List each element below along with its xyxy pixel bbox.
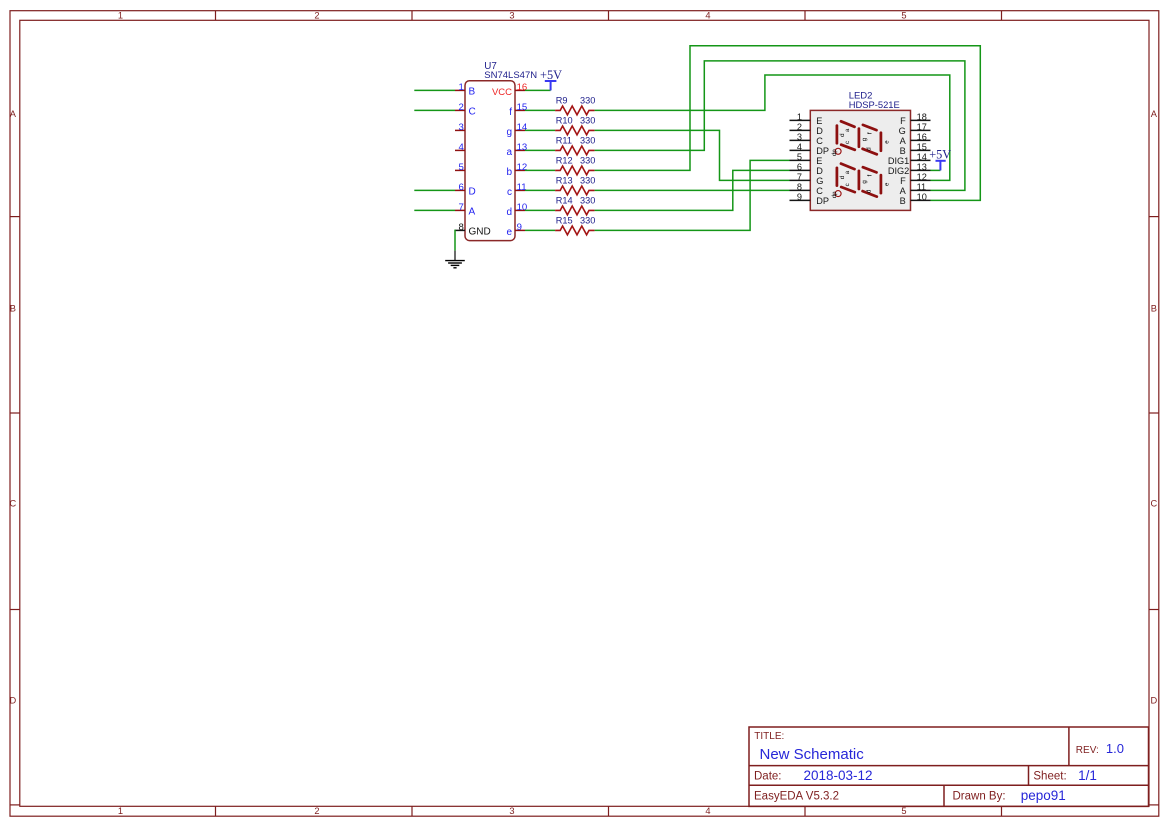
svg-text:dp: dp — [831, 149, 838, 156]
svg-text:R15: R15 — [556, 216, 573, 226]
svg-text:6: 6 — [458, 182, 463, 193]
svg-text:16: 16 — [917, 132, 927, 142]
U7 pin 10 stub — [515, 209, 525, 211]
U7 pin 5 stub — [455, 169, 465, 171]
svg-text:2018-03-12: 2018-03-12 — [804, 768, 873, 783]
U7 pin 14 stub — [515, 129, 525, 131]
wire R10 g to LED pin7 G — [595, 130, 790, 180]
frame tick left — [10, 216, 20, 218]
svg-text:10: 10 — [517, 202, 528, 213]
title block Sheet divider — [1028, 766, 1030, 786]
svg-text:GND: GND — [469, 227, 491, 238]
svg-text:DP: DP — [816, 196, 829, 206]
svg-text:R10: R10 — [556, 116, 573, 126]
frame tick top — [804, 11, 806, 21]
svg-text:D: D — [816, 166, 823, 176]
svg-text:F: F — [900, 116, 906, 126]
LED pin 11 stub — [911, 189, 931, 191]
svg-text:g: g — [861, 180, 868, 183]
svg-text:+5V: +5V — [540, 68, 562, 82]
LED pin 7 stub — [790, 179, 811, 181]
svg-text:c: c — [507, 187, 512, 198]
svg-text:R13: R13 — [556, 176, 573, 186]
svg-text:New Schematic: New Schematic — [760, 746, 865, 763]
svg-text:+5V: +5V — [929, 147, 951, 161]
svg-text:E: E — [816, 156, 822, 166]
svg-text:C: C — [9, 499, 16, 509]
svg-text:F: F — [900, 176, 906, 186]
svg-text:B: B — [469, 87, 476, 98]
svg-text:D: D — [1150, 696, 1157, 706]
svg-text:6: 6 — [797, 162, 802, 172]
svg-text:a: a — [506, 147, 512, 158]
U7 pin 11 stub — [515, 189, 525, 191]
svg-text:17: 17 — [917, 122, 927, 132]
frame tick bottom — [804, 806, 806, 816]
power symbol +5V (LED) — [939, 161, 941, 171]
svg-text:pepo91: pepo91 — [1021, 788, 1066, 803]
svg-text:A: A — [900, 136, 907, 146]
frame tick bottom — [1001, 806, 1003, 816]
svg-text:A: A — [900, 186, 907, 196]
svg-text:3: 3 — [509, 11, 514, 21]
frame tick right bottom — [1149, 804, 1159, 806]
svg-text:5: 5 — [458, 162, 463, 173]
svg-text:15: 15 — [917, 142, 927, 152]
resistor R9 330 — [525, 109, 555, 111]
U7 pin 12 stub — [515, 169, 525, 171]
wire R15 e to LED pin5 E — [595, 160, 790, 230]
U7 pin 8 stub — [455, 229, 465, 231]
U7 pin 2 stub — [455, 109, 465, 111]
frame tick bottom — [411, 806, 413, 816]
svg-text:330: 330 — [580, 216, 595, 226]
LED pin 4 stub — [790, 149, 811, 151]
svg-text:R12: R12 — [556, 156, 573, 166]
LED pin 12 stub — [911, 179, 931, 181]
title block row divider 1 — [749, 765, 1149, 767]
LED pin 1 stub — [790, 119, 811, 121]
svg-text:C: C — [1150, 499, 1157, 509]
wire to U7 pin 7 — [414, 209, 455, 211]
svg-text:9: 9 — [797, 192, 802, 202]
svg-text:d: d — [865, 190, 872, 193]
svg-text:B: B — [900, 196, 906, 206]
svg-text:D: D — [816, 126, 823, 136]
svg-text:330: 330 — [580, 156, 595, 166]
svg-text:12: 12 — [517, 162, 528, 173]
svg-text:5: 5 — [901, 11, 906, 21]
wire U7 pin16 to +5V — [525, 89, 551, 91]
svg-text:1: 1 — [797, 112, 802, 122]
svg-text:G: G — [816, 176, 823, 186]
frame tick top — [411, 11, 413, 21]
svg-text:7: 7 — [797, 172, 802, 182]
svg-text:c: c — [844, 183, 851, 186]
svg-text:Date:: Date: — [754, 771, 782, 783]
U7 pin 3 stub — [455, 129, 465, 131]
U7 pin 9 stub — [515, 229, 525, 231]
resistor R11 330 — [525, 149, 555, 151]
svg-text:VCC: VCC — [492, 87, 512, 98]
LED pin 5 stub — [790, 159, 811, 161]
svg-text:d: d — [839, 176, 846, 179]
svg-text:10: 10 — [917, 192, 927, 202]
svg-text:B: B — [900, 146, 906, 156]
svg-text:E: E — [816, 116, 822, 126]
svg-text:R11: R11 — [556, 136, 572, 146]
svg-text:D: D — [469, 187, 476, 198]
svg-text:16: 16 — [517, 82, 528, 93]
svg-text:dp: dp — [831, 191, 838, 198]
svg-text:f: f — [866, 132, 873, 134]
svg-text:4: 4 — [705, 806, 710, 816]
frame tick right — [1149, 412, 1159, 414]
svg-text:14: 14 — [917, 152, 927, 162]
title block DrawnBy divider — [943, 785, 945, 806]
svg-text:18: 18 — [917, 112, 927, 122]
wire R14 d to LED pin6 D — [595, 170, 790, 210]
svg-text:2: 2 — [458, 102, 463, 113]
svg-text:g: g — [506, 127, 512, 138]
frame tick top — [1001, 11, 1003, 21]
svg-text:7: 7 — [458, 202, 463, 213]
power symbol +5V (U7) — [550, 81, 552, 90]
wire to U7 pin 6 — [414, 189, 455, 191]
LED2 HDSP-521E body — [810, 110, 910, 210]
wire LED pin13 to +5V — [931, 169, 941, 171]
svg-text:DP: DP — [816, 146, 829, 156]
wire R12 b to LED pin10 B — [595, 46, 981, 201]
U7 pin 1 stub — [455, 89, 465, 91]
svg-text:330: 330 — [580, 136, 595, 146]
svg-text:G: G — [899, 126, 906, 136]
svg-text:C: C — [816, 186, 823, 196]
svg-text:d: d — [865, 147, 872, 150]
resistor R13 330 — [525, 189, 555, 191]
svg-text:TITLE:: TITLE: — [754, 731, 784, 742]
svg-text:EasyEDA V5.3.2: EasyEDA V5.3.2 — [754, 791, 839, 803]
LED pin 9 stub — [790, 199, 811, 201]
op-amp/IC U7 SN74LS47N body — [465, 81, 515, 241]
LED pin 6 stub — [790, 169, 811, 171]
LED pin 14 stub — [911, 159, 931, 161]
svg-text:330: 330 — [580, 116, 595, 126]
7-segment digit DIG1 — [831, 121, 891, 156]
wire to U7 pin 1 — [414, 89, 455, 91]
resistor R10 330 — [525, 129, 555, 131]
svg-text:f: f — [509, 107, 512, 118]
svg-text:A: A — [10, 109, 17, 119]
U7 pin 15 stub — [515, 109, 525, 111]
LED pin 16 stub — [911, 139, 931, 141]
svg-text:B: B — [1151, 304, 1157, 314]
svg-text:15: 15 — [517, 102, 528, 113]
svg-text:d: d — [506, 207, 512, 218]
svg-text:4: 4 — [797, 142, 802, 152]
LED pin 2 stub — [790, 129, 811, 131]
title block outline — [749, 727, 1149, 806]
svg-text:e: e — [506, 227, 512, 238]
svg-text:2: 2 — [314, 806, 319, 816]
svg-text:b: b — [506, 167, 512, 178]
frame tick left — [10, 609, 20, 611]
LED pin 13 stub — [911, 169, 931, 171]
svg-text:R14: R14 — [556, 196, 573, 206]
U7 pin 16 stub — [515, 89, 525, 91]
frame tick bottom — [608, 806, 610, 816]
svg-text:8: 8 — [797, 182, 802, 192]
svg-text:13: 13 — [517, 142, 528, 153]
U7 pin 13 stub — [515, 149, 525, 151]
svg-text:D: D — [9, 696, 16, 706]
U7 pin 6 stub — [455, 189, 465, 191]
svg-text:4: 4 — [458, 142, 464, 153]
wire R9 f to LED pin12 F — [595, 75, 950, 180]
svg-text:2: 2 — [797, 122, 802, 132]
resistor R15 330 — [525, 229, 555, 231]
svg-text:12: 12 — [917, 172, 927, 182]
svg-text:11: 11 — [517, 182, 527, 193]
svg-text:R9: R9 — [556, 96, 568, 106]
title block row divider 2 — [749, 784, 1149, 786]
wire U7 pin8 to ground — [454, 230, 456, 251]
svg-text:Sheet:: Sheet: — [1033, 771, 1066, 783]
U7 pin 7 stub — [455, 209, 465, 211]
svg-text:A: A — [1151, 109, 1158, 119]
LED pin 17 stub — [911, 129, 931, 131]
resistor R14 330 — [525, 209, 555, 211]
svg-text:3: 3 — [509, 806, 514, 816]
frame tick right — [1149, 216, 1159, 218]
wire R13 c to LED pin8 C — [595, 189, 790, 191]
wire R11 a to LED pin11 A — [595, 61, 965, 191]
LED pin 10 stub — [911, 199, 931, 201]
svg-text:9: 9 — [517, 222, 522, 233]
svg-text:C: C — [469, 107, 476, 118]
svg-text:DIG1: DIG1 — [888, 156, 909, 166]
LED pin 3 stub — [790, 139, 811, 141]
frame tick left — [10, 412, 20, 414]
svg-text:5: 5 — [901, 806, 906, 816]
svg-text:11: 11 — [917, 182, 927, 192]
svg-text:A: A — [469, 207, 476, 218]
svg-text:5: 5 — [797, 152, 802, 162]
svg-text:8: 8 — [458, 222, 463, 233]
svg-text:1/1: 1/1 — [1078, 768, 1097, 783]
LED pin 15 stub — [911, 149, 931, 151]
svg-text:c: c — [844, 141, 851, 144]
frame tick left bottom — [10, 804, 20, 806]
svg-text:SN74LS47N: SN74LS47N — [484, 70, 537, 81]
svg-text:C: C — [816, 136, 823, 146]
svg-text:3: 3 — [458, 122, 463, 133]
svg-text:REV:: REV: — [1076, 745, 1099, 756]
LED pin 8 stub — [790, 189, 811, 191]
svg-text:4: 4 — [705, 11, 710, 21]
svg-text:d: d — [839, 134, 846, 137]
svg-text:13: 13 — [917, 162, 927, 172]
svg-text:330: 330 — [580, 196, 595, 206]
svg-text:B: B — [10, 304, 16, 314]
svg-text:1: 1 — [118, 11, 123, 21]
svg-text:g: g — [861, 138, 868, 141]
svg-text:14: 14 — [517, 122, 528, 133]
resistor R12 330 — [525, 169, 555, 171]
ground symbol — [454, 251, 456, 261]
title block REV divider — [1068, 727, 1070, 766]
svg-text:3: 3 — [797, 132, 802, 142]
svg-text:f: f — [866, 174, 873, 176]
7-segment digit DIG2 — [831, 164, 891, 199]
frame tick right — [1149, 609, 1159, 611]
svg-text:1.0: 1.0 — [1106, 741, 1124, 756]
U7 pin 4 stub — [455, 149, 465, 151]
frame tick top — [608, 11, 610, 21]
svg-text:1: 1 — [458, 82, 463, 93]
svg-text:DIG2: DIG2 — [888, 166, 909, 176]
svg-text:Drawn By:: Drawn By: — [953, 791, 1006, 803]
frame tick top — [215, 11, 217, 21]
svg-text:HDSP-521E: HDSP-521E — [849, 99, 900, 110]
wire to U7 pin 2 — [414, 109, 455, 111]
svg-text:330: 330 — [580, 96, 595, 106]
LED pin 18 stub — [911, 119, 931, 121]
svg-text:330: 330 — [580, 176, 595, 186]
frame tick bottom — [215, 806, 217, 816]
svg-text:1: 1 — [118, 806, 123, 816]
svg-text:2: 2 — [314, 11, 319, 21]
